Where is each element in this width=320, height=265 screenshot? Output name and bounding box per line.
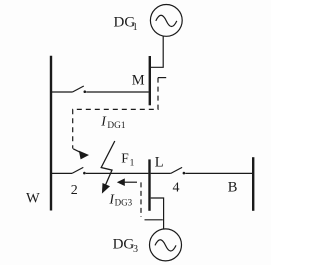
wire DG1 to bus M: [151, 36, 163, 67]
svg-text:M: M: [132, 72, 145, 88]
dashed current path IDG3: [140, 182, 142, 217]
generator DG1: [150, 5, 182, 37]
svg-text:W: W: [26, 190, 40, 206]
svg-text:DG3: DG3: [115, 198, 133, 208]
bus L: [148, 159, 150, 210]
wire switch 4 to bus B: [185, 172, 252, 174]
wire switch 2 to bus L: [86, 172, 149, 174]
svg-text:3: 3: [133, 244, 138, 255]
svg-text:1: 1: [130, 159, 135, 169]
svg-text:1: 1: [133, 22, 138, 33]
svg-text:L: L: [155, 154, 164, 170]
switch hinge dot on W-M feeder: [84, 90, 87, 93]
generator DG3: [150, 229, 182, 261]
dashed current path IDG1 stub at bus M: [158, 77, 166, 79]
switch 2 hinge dot: [83, 172, 86, 175]
wire W-L feeder left segment: [52, 172, 72, 174]
dashed current path IDG1: [73, 78, 158, 149]
switch 4 hinge dot: [183, 172, 186, 175]
switch 2 blade: [72, 167, 83, 173]
wire W-M feeder right segment: [86, 91, 149, 93]
arrow of current path IDG1: [73, 149, 80, 152]
fault bolt F1: [101, 141, 115, 185]
svg-text:2: 2: [71, 183, 78, 198]
fault bolt F1 arrowhead: [102, 183, 110, 194]
bus M: [149, 56, 151, 105]
wire bus L to DG3: [151, 198, 164, 229]
switch 4 blade: [171, 167, 182, 173]
wire bus L to switch 4: [151, 172, 171, 174]
arrow of current path IDG3: [125, 181, 138, 183]
bus W: [50, 56, 52, 211]
svg-text:F: F: [121, 150, 129, 165]
dashed current path IDG3 last dash to DG3 wire: [145, 219, 163, 221]
svg-text:B: B: [228, 180, 238, 196]
switch blade on W-M feeder: [73, 86, 84, 92]
svg-text:4: 4: [173, 180, 180, 195]
svg-text:DG: DG: [113, 237, 135, 253]
wire W-M feeder left segment: [52, 91, 73, 93]
bus B: [252, 157, 254, 211]
svg-text:DG1: DG1: [107, 121, 125, 131]
